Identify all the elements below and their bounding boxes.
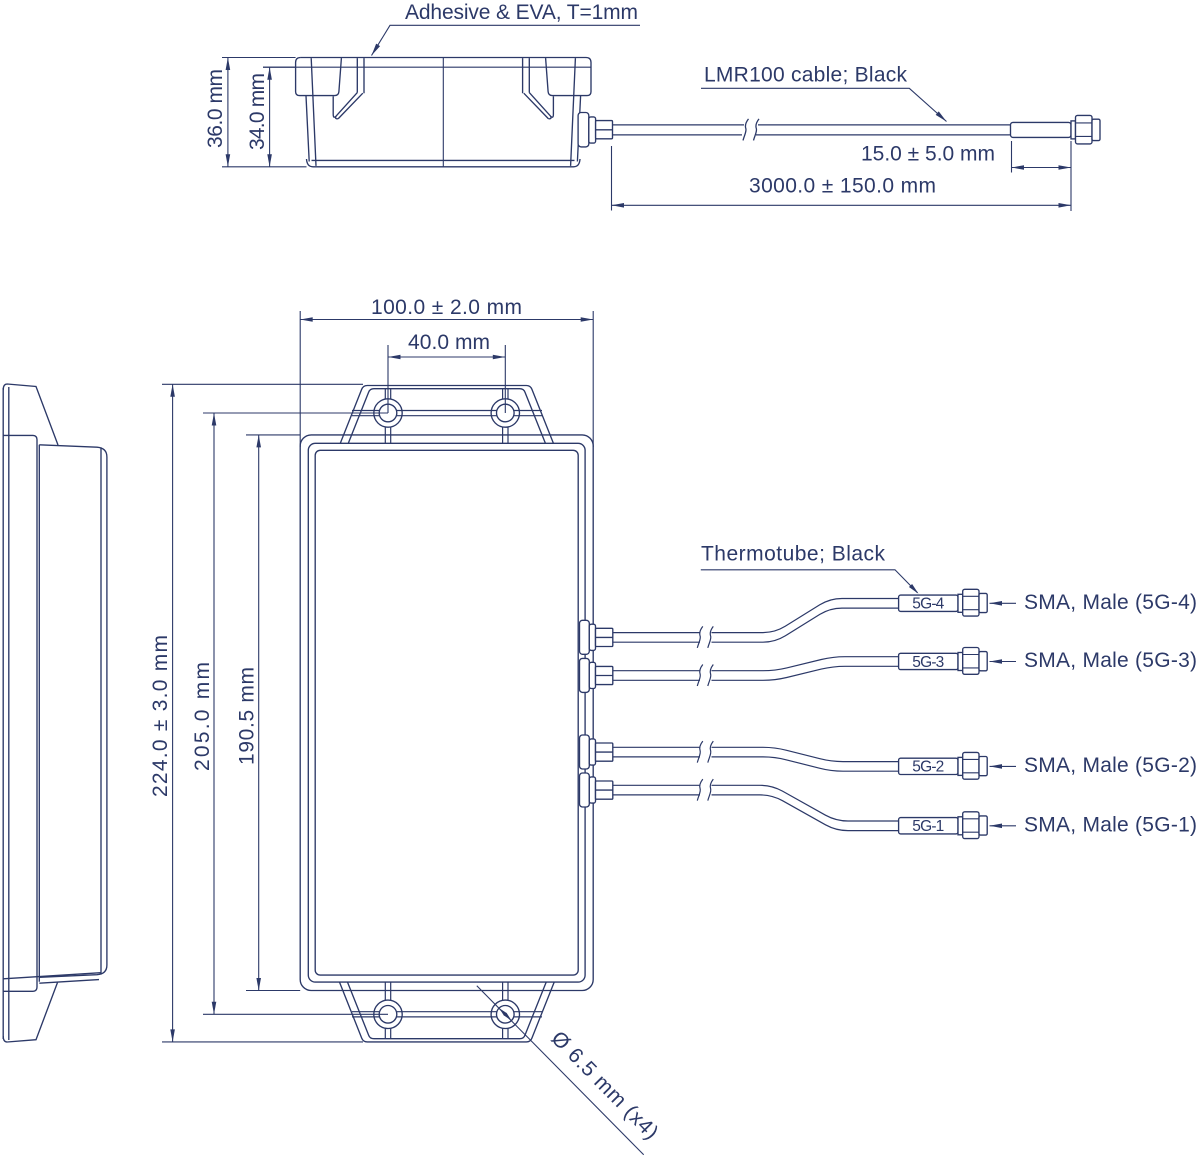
side view: cable break marks <box>743 119 759 140</box>
side view: cable gland <box>578 113 612 147</box>
front: dim 40 ext centerlines <box>388 345 505 413</box>
front: middle body rect <box>308 443 585 982</box>
front: outer body rect <box>300 435 593 991</box>
dim 34.0 line <box>269 67 271 167</box>
side view: flange top edge <box>301 57 586 59</box>
svg-text:100.0 ± 2.0 mm: 100.0 ± 2.0 mm <box>371 296 522 319</box>
dim 36.0 extension lines <box>222 57 296 59</box>
side view: right gusset <box>524 93 554 119</box>
leader: LMR100 label <box>701 88 947 121</box>
profile: top tab wedge <box>3 384 58 445</box>
side view: right dome wall <box>571 58 581 166</box>
front: inner body rect <box>315 450 578 975</box>
dim 100.0 line <box>300 319 593 321</box>
svg-text:205.0 mm: 205.0 mm <box>191 662 214 771</box>
svg-text:224.0 ± 3.0 mm: 224.0 ± 3.0 mm <box>149 635 172 797</box>
svg-text:5G-4: 5G-4 <box>912 596 944 613</box>
side view: LMR100 cable run <box>613 125 1011 135</box>
svg-text:SMA, Male (5G-3): SMA, Male (5G-3) <box>1024 649 1197 672</box>
dim 224.0 line <box>172 384 174 1042</box>
label box and SMA 5G-4 <box>899 589 1016 616</box>
profile: dome inner wall line <box>100 447 102 974</box>
front: dim 205 centerline stub bottom <box>203 1013 388 1015</box>
profile: dome outline <box>39 445 107 978</box>
dim 15.0 extension lines <box>1011 141 1013 173</box>
arrowheads front dims <box>300 317 313 322</box>
dim 205.0 line <box>213 413 215 1014</box>
leader: adhesive label <box>372 25 641 55</box>
svg-text:15.0 ± 5.0 mm: 15.0 ± 5.0 mm <box>861 143 995 166</box>
dim 15.0 line <box>1012 167 1072 169</box>
front: top-right hole <box>491 399 519 427</box>
front: top bracket rib verticals <box>385 389 508 443</box>
cable run 5G-3 <box>613 657 899 681</box>
label box and SMA 5G-2 <box>899 752 1016 779</box>
side view: center parting line <box>442 58 444 167</box>
label box and SMA 5G-1 <box>899 812 1016 839</box>
cable run 5G-4 <box>613 599 899 643</box>
svg-text:SMA, Male (5G-4): SMA, Male (5G-4) <box>1024 591 1197 614</box>
dim 100.0 extension lines <box>300 311 593 447</box>
svg-text:LMR100 cable; Black: LMR100 cable; Black <box>704 64 908 87</box>
front: bottom bracket inner <box>348 982 547 1039</box>
side view: ferrule <box>1011 122 1072 137</box>
svg-text:SMA, Male (5G-2): SMA, Male (5G-2) <box>1024 754 1197 777</box>
svg-text:36.0 mm: 36.0 mm <box>204 69 227 148</box>
profile: flange-dome boundary second line <box>38 445 40 982</box>
svg-text:190.5 mm: 190.5 mm <box>236 667 259 765</box>
cable break 5G-1 <box>697 779 713 801</box>
profile: flange plate <box>3 435 37 991</box>
cable gland 5G-1 <box>580 773 613 807</box>
dim 3000.0 line <box>612 204 1072 206</box>
profile: bottom tab wedge <box>3 983 57 1043</box>
dim 190.5 extension lines <box>246 435 300 991</box>
side view: right mounting tab <box>546 58 591 96</box>
cable gland 5G-4 <box>580 620 613 654</box>
cable run 5G-2 <box>613 747 899 771</box>
cable run 5G-1 <box>613 785 899 830</box>
cable gland 5G-2 <box>580 735 613 769</box>
front: top bracket inner <box>348 389 545 444</box>
dim 34.0 extension line <box>263 66 296 68</box>
side view: flange underside line <box>263 66 591 68</box>
front: dim 205 centerline stub top <box>203 412 388 414</box>
leader: hole diameter <box>477 986 644 1155</box>
side view: right bracket plate <box>523 58 530 93</box>
svg-text:SMA, Male (5G-1): SMA, Male (5G-1) <box>1024 813 1197 836</box>
dim 36.0 line <box>227 58 229 167</box>
svg-text:40.0 mm: 40.0 mm <box>408 331 490 354</box>
profile: bottom slanted edges <box>3 973 101 984</box>
dim 3000.0 extension line <box>611 146 613 211</box>
front: top-left hole <box>374 399 402 427</box>
label box and SMA 5G-3 <box>899 648 1016 675</box>
front: bottom bracket outer <box>340 982 555 1042</box>
front: bottom bracket rib verticals <box>385 982 508 1039</box>
cable break 5G-4 <box>697 626 713 648</box>
side view: dome bottom edges <box>307 159 581 167</box>
front: bottom-right hole <box>491 1000 519 1028</box>
svg-text:5G-1: 5G-1 <box>912 818 944 835</box>
cable break 5G-3 <box>697 665 713 687</box>
leader: thermotube <box>701 570 918 593</box>
profile: tab plate verticals <box>3 387 9 1040</box>
front: top bracket outer <box>340 386 553 444</box>
svg-text:5G-3: 5G-3 <box>912 654 944 671</box>
cable gland 5G-3 <box>580 658 613 692</box>
svg-text:Adhesive & EVA, T=1mm: Adhesive & EVA, T=1mm <box>405 1 638 24</box>
arrowheads top view dims <box>226 58 231 71</box>
side view: left mounting tab <box>296 58 342 96</box>
front: top bracket rib horizontal <box>352 411 542 416</box>
dim 40.0 line <box>388 356 505 358</box>
svg-text:5G-2: 5G-2 <box>912 759 944 776</box>
side view: left dome wall <box>306 58 316 166</box>
dim 190.5 line <box>258 435 260 991</box>
front: bottom bracket rib horizontal <box>352 1012 542 1017</box>
svg-text:34.0 mm: 34.0 mm <box>246 73 269 150</box>
svg-text:3000.0 ± 150.0 mm: 3000.0 ± 150.0 mm <box>749 175 936 198</box>
side view: left bracket plate <box>357 58 364 93</box>
cable break 5G-2 <box>697 741 713 763</box>
side view: SMA connector <box>1071 115 1100 143</box>
svg-text:Thermotube; Black: Thermotube; Black <box>701 543 886 566</box>
side view: left gusset <box>333 93 363 119</box>
front: bottom-left hole <box>374 1000 402 1028</box>
dim 224.0 extension lines <box>162 384 363 1042</box>
